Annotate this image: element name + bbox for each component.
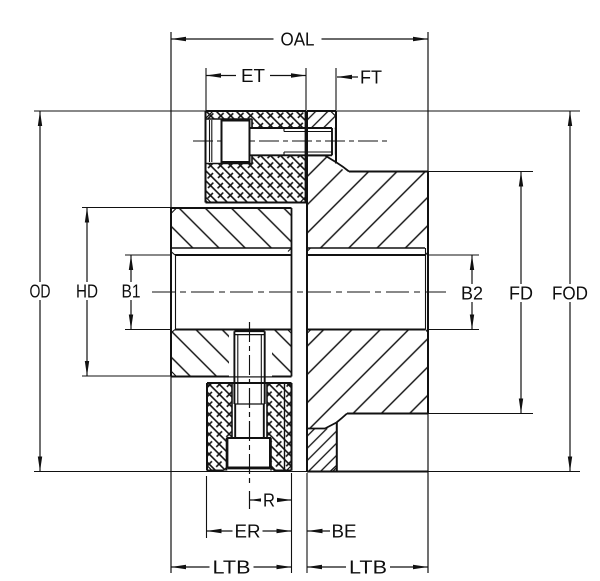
top screw — [222, 121, 336, 163]
extension line ET left x=206 — [205, 68, 207, 110]
dimension LTB left — [171, 558, 292, 578]
bottom screw — [227, 331, 272, 469]
dimension B2 — [458, 255, 486, 330]
svg-text:R: R — [263, 491, 275, 511]
dimension BE — [308, 522, 357, 542]
extension line x=307 bottom — [306, 473, 308, 573]
centerline main horizontal — [152, 291, 446, 293]
extension line ER left bottom — [206, 476, 208, 538]
svg-text:ET: ET — [241, 66, 265, 86]
svg-text:HD: HD — [76, 282, 98, 302]
dimension ER — [207, 522, 292, 542]
left hub section — [171, 208, 292, 377]
extension line bottom edge OD-FOD y=471.5 — [34, 471, 580, 473]
dimension OD — [24, 111, 56, 472]
svg-text:LTB: LTB — [213, 558, 251, 578]
extension line x=291.5 bottom — [291, 473, 293, 573]
svg-text:FD: FD — [509, 284, 533, 304]
svg-text:FT: FT — [360, 68, 382, 88]
extension line right face x=428 — [427, 32, 429, 573]
centerline bottom screw over — [249, 322, 251, 487]
extension line top edge OD-FOD y=111 — [34, 110, 580, 112]
extension line B2 top — [428, 254, 479, 256]
svg-text:B1: B1 — [122, 282, 141, 302]
dimension HD — [71, 208, 103, 377]
right flange section — [307, 111, 428, 472]
extension line left face x=171 — [170, 32, 172, 573]
extension line B1 top — [125, 254, 171, 256]
svg-text:FOD: FOD — [552, 284, 588, 304]
dimension FT — [337, 68, 382, 88]
extension line B2 bottom — [428, 329, 479, 331]
extension line FD bottom — [428, 413, 533, 415]
top sleeve section — [206, 111, 307, 203]
svg-text:ER: ER — [235, 522, 261, 542]
extension line FT x=336 — [335, 68, 337, 110]
extension line ET right x=306 — [305, 68, 307, 110]
extension line FD top — [428, 171, 533, 173]
extension line HD top — [82, 207, 171, 209]
dimension OAL — [171, 30, 428, 50]
svg-text:OAL: OAL — [281, 30, 315, 50]
dimension FD — [506, 172, 536, 414]
dimension FOD — [548, 111, 592, 472]
dimension R — [250, 491, 292, 511]
dimension B1 — [117, 255, 145, 330]
R dimension tick at screw centerline — [249, 491, 251, 509]
centerline bottom screw vertical — [249, 322, 251, 487]
centerline top screw horizontal — [193, 140, 389, 142]
dimension LTB right — [307, 558, 428, 578]
svg-text:OD: OD — [30, 282, 51, 302]
dimension ET — [206, 66, 306, 86]
extension line HD bottom — [82, 375, 171, 377]
svg-text:LTB: LTB — [349, 558, 387, 578]
extension line B1 bottom — [125, 329, 171, 331]
svg-text:B2: B2 — [461, 284, 483, 304]
bottom sleeve section — [207, 383, 292, 471]
svg-text:BE: BE — [332, 522, 357, 542]
